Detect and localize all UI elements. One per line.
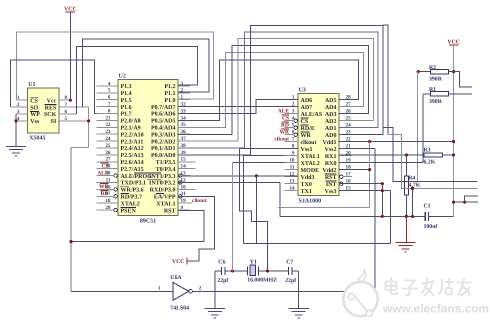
svg-text:AD4: AD4 <box>325 105 337 111</box>
wire inverter output <box>192 290 374 292</box>
svg-text:R1: R1 <box>429 87 436 93</box>
wire AD0 bus <box>178 25 383 155</box>
svg-text:TXD/P3.1: TXD/P3.1 <box>121 181 147 187</box>
wire SCK net U1.6 to U2 P1.2 <box>76 46 197 114</box>
wire SO net U1.2 to U2 P1.7 <box>10 60 96 114</box>
svg-text:clkout: clkout <box>301 139 317 146</box>
svg-text:U1: U1 <box>28 82 35 88</box>
power VCC bottom <box>172 258 187 265</box>
svg-text:C7: C7 <box>286 259 293 265</box>
svg-text:100nf: 100nf <box>424 223 438 230</box>
wire RX0 row <box>339 162 423 164</box>
svg-text:P0.7/AD7: P0.7/AD7 <box>151 105 176 111</box>
wire R1 row <box>423 93 472 95</box>
svg-text:74LS04: 74LS04 <box>170 305 189 311</box>
wire XTAL1 long link <box>244 156 391 244</box>
svg-text:ALE: ALE <box>97 170 109 176</box>
svg-text:R2: R2 <box>429 65 436 71</box>
resistor R2 <box>429 65 449 83</box>
svg-text:22pf: 22pf <box>285 277 296 284</box>
wire long reset net <box>69 240 204 243</box>
svg-text:P1.7: P1.7 <box>121 112 132 118</box>
svg-text:C1: C1 <box>424 204 431 210</box>
svg-text:P0.4/AD4: P0.4/AD4 <box>151 126 176 132</box>
svg-text:XTAL2: XTAL2 <box>121 201 140 207</box>
svg-text:P2.0/A8: P2.0/A8 <box>121 119 141 125</box>
svg-text:Vss3: Vss3 <box>324 189 336 195</box>
wire AD1 ext to connector <box>383 128 478 182</box>
svg-text:Vss2: Vss2 <box>324 147 336 153</box>
wire INT ext <box>339 182 384 216</box>
svg-text:C6: C6 <box>218 259 225 265</box>
svg-text:WR/P3.6: WR/P3.6 <box>121 188 144 194</box>
ground red at R4 <box>395 216 415 252</box>
svg-text:RX1: RX1 <box>325 154 337 160</box>
U1 pin 5 SI stub <box>59 120 89 122</box>
svg-text:X5045: X5045 <box>29 135 45 141</box>
svg-text:P2.5/A13: P2.5/A13 <box>121 153 144 159</box>
svg-text:U2: U2 <box>119 74 126 80</box>
wire VCC stem down to U1 Vcc <box>69 12 71 100</box>
svg-text:EA/VPP: EA/VPP <box>154 195 176 201</box>
svg-text:XTAL2: XTAL2 <box>301 161 320 167</box>
svg-text:Vcc: Vcc <box>47 98 57 104</box>
svg-text:P2.4/A12: P2.4/A12 <box>121 146 144 152</box>
svg-text:TX0: TX0 <box>301 182 312 188</box>
svg-text:RST: RST <box>164 208 176 214</box>
svg-text:PSEN: PSEN <box>121 208 137 214</box>
U3 right pin stubs <box>339 100 352 191</box>
svg-text:P0.5/AD5: P0.5/AD5 <box>151 119 176 125</box>
svg-text:AD7: AD7 <box>301 105 313 111</box>
wire AD3 bus <box>178 45 368 134</box>
node WR label <box>99 184 110 191</box>
wire AD2 bus <box>178 38 373 141</box>
svg-text:T1/P3.5: T1/P3.5 <box>156 160 176 166</box>
svg-text:MODE: MODE <box>301 168 320 174</box>
svg-text:16.000MHZ: 16.000MHZ <box>247 277 277 283</box>
node clkout label at U3 <box>274 136 289 142</box>
svg-text:RD/P3.7: RD/P3.7 <box>121 195 143 201</box>
svg-text:P0.1/AD1: P0.1/AD1 <box>151 146 176 152</box>
IC U3 SJA1000 body <box>298 88 339 205</box>
node RD label <box>101 191 109 198</box>
svg-text:clkout: clkout <box>192 198 207 204</box>
crystal Y1 <box>247 259 277 283</box>
ground under C7 <box>288 271 308 318</box>
svg-text:P1.3: P1.3 <box>121 84 132 90</box>
wire crystal row <box>215 269 299 272</box>
svg-text:390R: 390R <box>429 77 443 83</box>
svg-text:SI: SI <box>51 119 57 125</box>
U3 pin numbers <box>289 95 351 192</box>
svg-text:ALE: ALE <box>278 108 290 114</box>
resistor R1 <box>429 87 449 105</box>
U1 pin 4 Vss stub <box>16 120 28 122</box>
svg-text:P2.1/A9: P2.1/A9 <box>121 126 141 132</box>
svg-text:U3: U3 <box>299 88 306 94</box>
svg-text:ALE/PROG: ALE/PROG <box>121 174 153 180</box>
capacitor C7 <box>285 259 296 284</box>
svg-text:4.7K: 4.7K <box>409 182 421 188</box>
U2 pin numbers <box>105 81 186 211</box>
U2 right pin stubs <box>178 86 195 210</box>
svg-text:P0.3/AD3: P0.3/AD3 <box>151 132 176 138</box>
svg-text:P1.0: P1.0 <box>164 98 175 104</box>
node ALE label at U3 <box>278 108 290 114</box>
svg-text:P1.5: P1.5 <box>121 98 132 104</box>
wire INT0 long row <box>178 183 280 217</box>
wire AD1 bus <box>178 32 378 148</box>
svg-text:AD0: AD0 <box>325 133 337 139</box>
IC U1 X5045 body <box>28 82 59 142</box>
svg-text:ALE/AS: ALE/AS <box>301 112 323 118</box>
wire drop to reset row <box>411 187 414 217</box>
svg-text:WR: WR <box>301 133 312 139</box>
wire AD7 direct <box>178 106 298 108</box>
svg-text:WR: WR <box>99 184 110 190</box>
svg-text:RD: RD <box>101 191 109 197</box>
wire EA to VCC bracket <box>178 197 214 262</box>
svg-text:T0/P3.4: T0/P3.4 <box>156 167 176 173</box>
ground under U1 <box>6 114 26 156</box>
svg-text:P2.6/A14: P2.6/A14 <box>121 160 144 166</box>
svg-text:R4: R4 <box>408 175 415 181</box>
svg-text:P2.3/A11: P2.3/A11 <box>121 139 144 145</box>
svg-text:Vss: Vss <box>30 119 40 125</box>
wire Vss1 steps <box>240 149 298 271</box>
svg-text:RD/E: RD/E <box>301 126 315 132</box>
wire R4 bottom <box>405 195 407 216</box>
wire gray drop from R2 row <box>416 72 418 182</box>
svg-text:1: 1 <box>158 285 161 291</box>
U1 pin 7 RES stub <box>59 106 89 108</box>
svg-text:RXD/P3.0: RXD/P3.0 <box>150 188 176 194</box>
svg-text:www.elecfans.com: www.elecfans.com <box>382 302 489 316</box>
svg-text:TX1: TX1 <box>301 189 312 195</box>
svg-text:Vss1: Vss1 <box>301 147 313 153</box>
U3 inversion bubbles <box>294 119 343 185</box>
svg-text:P1.2: P1.2 <box>164 84 175 90</box>
wire Vss3 row <box>339 189 391 244</box>
svg-text:AD5: AD5 <box>325 98 337 104</box>
wire XTAL2 riser to crystal <box>232 163 284 271</box>
gate U6A 74LS04 <box>71 275 202 311</box>
svg-text:RX0: RX0 <box>325 161 337 167</box>
U1 pin numbers <box>17 95 68 122</box>
svg-text:clkout: clkout <box>274 136 289 142</box>
node clkout label at U2 XTAL1 <box>192 198 207 204</box>
svg-text:P1.1: P1.1 <box>164 91 175 97</box>
svg-text:AD3: AD3 <box>325 112 337 118</box>
svg-text:P0.0/AD0: P0.0/AD0 <box>151 153 176 159</box>
svg-text:INT1/P3.3: INT1/P3.3 <box>149 174 176 180</box>
wire vcc spur row <box>452 201 478 204</box>
node CS label at U3 <box>282 115 290 122</box>
U1 pin 2 SO stub <box>10 106 27 108</box>
svg-text:RST: RST <box>325 175 337 181</box>
U1 pin 6 SCK stub <box>59 113 77 115</box>
wire RX0 riser <box>422 94 424 163</box>
svg-text:Vdd1: Vdd1 <box>322 139 336 146</box>
svg-text:AD2: AD2 <box>325 119 337 125</box>
wire VCC right stem <box>453 45 455 217</box>
resistor R4 <box>404 175 420 195</box>
svg-text:WP: WP <box>30 112 40 118</box>
wire CS net U1.1 to U2 P1.0 <box>17 32 214 100</box>
svg-text:INT: INT <box>326 182 337 188</box>
node WR label at U3 <box>280 129 291 136</box>
svg-text:XTAL1: XTAL1 <box>301 154 320 160</box>
svg-text:CS: CS <box>301 119 309 125</box>
wire R2 row <box>417 70 456 73</box>
svg-text:VCC: VCC <box>172 259 185 265</box>
U1 pin 8 Vcc stub <box>59 99 72 102</box>
wire outer bus corner <box>383 25 388 135</box>
svg-text:R3: R3 <box>424 147 431 153</box>
wire RX1/R3 row <box>339 153 455 156</box>
svg-text:2: 2 <box>199 285 202 291</box>
wire INT1 to Vdd3 row <box>178 174 298 243</box>
svg-text:P0.6/AD6: P0.6/AD6 <box>151 112 176 118</box>
ground under C6 <box>205 271 225 318</box>
wire AD6 <box>178 100 298 114</box>
wire gray run under U3 <box>278 206 370 208</box>
wire RST drop <box>178 210 204 241</box>
svg-text:XTAL1: XTAL1 <box>156 201 175 207</box>
capacitor C6 <box>217 259 228 284</box>
wire AD5 bus <box>178 60 358 121</box>
power VCC right <box>447 39 460 45</box>
wire step right of R2 <box>454 72 473 87</box>
svg-text:89C51: 89C51 <box>140 218 156 224</box>
U2 left pin stubs <box>97 86 119 210</box>
wire vcc spur step <box>465 196 478 202</box>
wire AD0 ext to connector <box>388 135 478 189</box>
svg-text:CS: CS <box>101 163 108 169</box>
svg-text:P2.2/A10: P2.2/A10 <box>121 132 144 138</box>
svg-text:RD: RD <box>281 122 289 128</box>
svg-text:AD6: AD6 <box>301 98 313 104</box>
power VCC top-left <box>64 7 77 13</box>
svg-text:6.2K: 6.2K <box>424 159 436 165</box>
svg-text:P1.4: P1.4 <box>121 91 132 97</box>
U3 left pin stubs <box>284 100 298 191</box>
svg-text:P1.6: P1.6 <box>121 105 132 111</box>
svg-text:Vdd2: Vdd2 <box>322 167 336 174</box>
wire reset row <box>280 215 453 218</box>
svg-text:SCK: SCK <box>44 112 57 118</box>
svg-text:INT0/P3.2: INT0/P3.2 <box>149 181 176 187</box>
node ALE label <box>97 170 109 176</box>
svg-text:390R: 390R <box>429 99 443 105</box>
svg-text:RES: RES <box>45 105 57 111</box>
capacitor C1 <box>424 204 438 231</box>
svg-text:P2.7/A15: P2.7/A15 <box>121 167 144 173</box>
IC U2 89C51 body <box>118 74 178 225</box>
U1 pin 3 WP stub <box>16 113 28 115</box>
svg-text:U6A: U6A <box>170 275 182 281</box>
svg-text:SJA1000: SJA1000 <box>299 198 322 204</box>
node CS label <box>101 163 109 170</box>
svg-text:AD1: AD1 <box>325 126 337 132</box>
wire Vss2 ext <box>339 149 375 292</box>
wire U1 RES up to P1.1 <box>83 39 209 107</box>
svg-text:Vdd3: Vdd3 <box>301 174 315 181</box>
resistor R3 <box>424 147 443 165</box>
watermark elecfans logo <box>343 270 489 317</box>
svg-text:SO: SO <box>30 105 38 111</box>
wire AD4 bus <box>178 52 363 127</box>
U1 pin 1 CS stub <box>17 99 28 101</box>
svg-text:Y1: Y1 <box>250 259 257 265</box>
svg-text:WR: WR <box>280 129 291 135</box>
wire R4 top <box>405 155 407 176</box>
svg-text:22pf: 22pf <box>217 277 228 284</box>
svg-text:CS: CS <box>282 115 289 121</box>
wire Vdd tie <box>339 140 455 207</box>
svg-text:CS: CS <box>30 98 38 104</box>
svg-text:P0.2/AD2: P0.2/AD2 <box>151 139 176 145</box>
node RD label at U3 <box>281 122 289 128</box>
U2 inversion bubbles <box>114 174 182 212</box>
wire RES-SI loop and reset net down <box>71 107 90 291</box>
